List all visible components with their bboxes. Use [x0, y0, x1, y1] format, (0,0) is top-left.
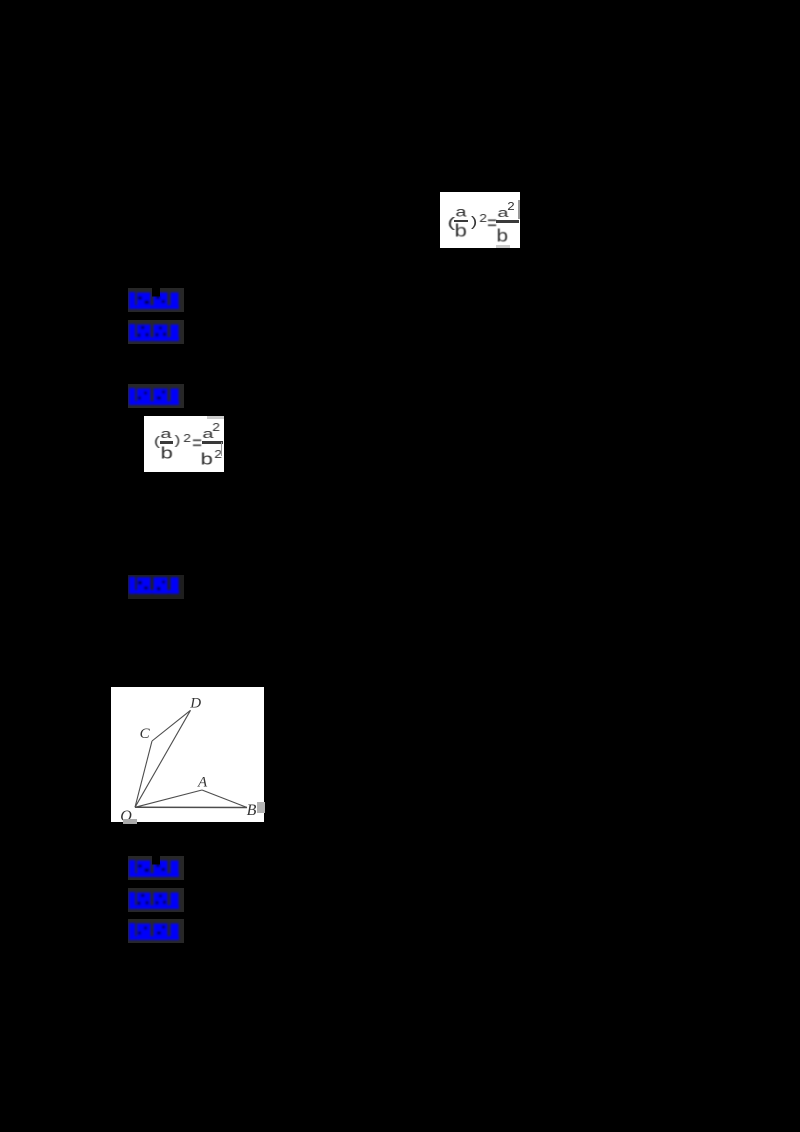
formula image 2: (a/b)^2 = a^2/b^2 [144, 416, 224, 472]
blue label [fenxi] #2 [128, 888, 184, 912]
segment O-C [135, 741, 152, 807]
shared defs for blue labels [0, 0, 1, 1]
segment O-A [135, 790, 202, 807]
segment O-B [135, 806, 247, 808]
svg-text:A: A [197, 775, 208, 791]
geometry figure [111, 687, 264, 822]
svg-text:B: B [247, 802, 257, 819]
blue label [dianping] [128, 575, 184, 599]
blue label [fenxi] #1 [128, 320, 184, 344]
blue label [kaodian] #1 [128, 288, 184, 312]
formula image 1: (a/b)^2 = a^2/b [440, 192, 520, 248]
gray artifacts near figure [123, 819, 137, 824]
blue label [kaodian] #2 [128, 856, 184, 880]
segment O-D [135, 710, 191, 807]
svg-text:D: D [189, 695, 201, 711]
blue label [jieda] #2 [128, 919, 184, 943]
blue label [jieda] #1 [128, 384, 184, 408]
segment C-D [152, 710, 191, 741]
svg-text:C: C [140, 726, 151, 742]
segment A-B [202, 790, 247, 808]
